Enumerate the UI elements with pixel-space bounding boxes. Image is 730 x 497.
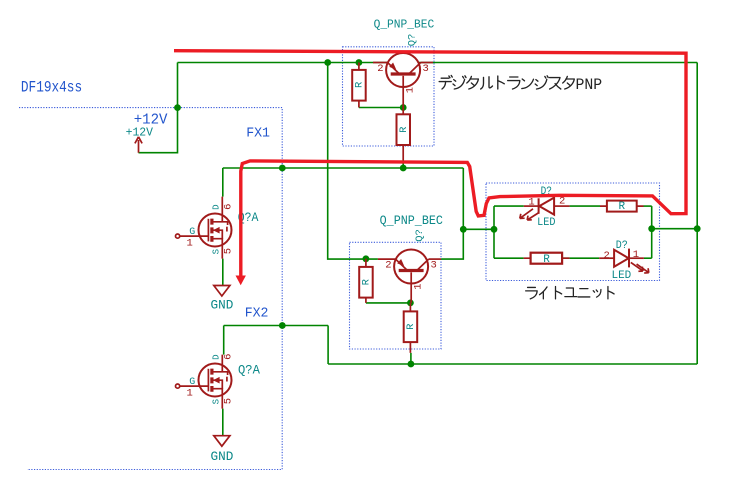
svg-text:1: 1 bbox=[187, 387, 193, 399]
svg-text:FX1: FX1 bbox=[246, 126, 270, 142]
svg-text:1: 1 bbox=[187, 237, 193, 249]
svg-text:DF19x4ss: DF19x4ss bbox=[21, 78, 82, 96]
svg-text:GND: GND bbox=[211, 449, 234, 464]
svg-text:D: D bbox=[212, 354, 222, 359]
svg-text:R: R bbox=[618, 201, 625, 213]
svg-text:1: 1 bbox=[405, 87, 417, 93]
svg-text:D?: D? bbox=[616, 240, 628, 252]
svg-text:LED: LED bbox=[612, 270, 632, 282]
svg-text:2: 2 bbox=[603, 250, 609, 262]
svg-text:1: 1 bbox=[528, 196, 534, 208]
svg-text:6: 6 bbox=[223, 354, 235, 360]
svg-text:3: 3 bbox=[431, 259, 437, 271]
svg-text:2: 2 bbox=[385, 259, 391, 271]
svg-text:3: 3 bbox=[423, 63, 429, 75]
svg-text:GND: GND bbox=[211, 298, 234, 313]
svg-text:PNP: PNP bbox=[576, 76, 603, 94]
svg-text:R: R bbox=[354, 81, 366, 88]
svg-text:R: R bbox=[361, 278, 373, 285]
svg-text:G: G bbox=[189, 377, 195, 388]
svg-text:5: 5 bbox=[223, 248, 235, 254]
svg-text:S: S bbox=[212, 249, 222, 254]
svg-text:+12V: +12V bbox=[134, 112, 168, 129]
svg-text:S: S bbox=[212, 399, 222, 404]
svg-text:1: 1 bbox=[633, 249, 639, 261]
svg-text:2: 2 bbox=[559, 195, 565, 207]
svg-text:Q?: Q? bbox=[406, 34, 418, 47]
svg-text:R: R bbox=[405, 323, 417, 330]
svg-text:2: 2 bbox=[377, 63, 383, 75]
svg-text:G: G bbox=[189, 227, 195, 238]
svg-text:5: 5 bbox=[223, 398, 235, 404]
svg-text:Q_PNP_BEC: Q_PNP_BEC bbox=[374, 18, 435, 32]
svg-text:Q?: Q? bbox=[414, 229, 426, 242]
svg-text:R: R bbox=[543, 254, 550, 266]
svg-text:Q?A: Q?A bbox=[238, 362, 260, 377]
svg-text:R: R bbox=[398, 126, 410, 133]
svg-text:Q_PNP_BEC: Q_PNP_BEC bbox=[380, 214, 443, 228]
svg-text:FX2: FX2 bbox=[245, 306, 269, 322]
svg-text:6: 6 bbox=[223, 204, 235, 210]
svg-text:D: D bbox=[212, 204, 222, 209]
svg-text:1: 1 bbox=[413, 283, 425, 289]
svg-text:LED: LED bbox=[537, 217, 555, 229]
